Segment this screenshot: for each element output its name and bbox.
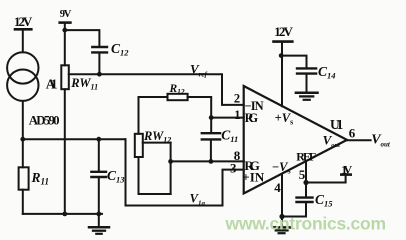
svg-text:9V: 9V: [60, 9, 72, 20]
12V supply terminal bar (right): [274, 40, 293, 43]
current source A1 circle upper: [7, 52, 38, 83]
svg-text:12V: 12V: [274, 24, 293, 39]
wire RW12 tap vertical: [170, 143, 172, 194]
svg-text:2: 2: [234, 92, 240, 106]
svg-text:6: 6: [349, 125, 356, 140]
ground symbol G3: [281, 217, 283, 227]
wire branch 12V to C14: [282, 56, 307, 68]
junction C13/ground: [96, 212, 101, 217]
wire pin4 stem: [281, 174, 283, 217]
svg-text:www.cntronics.com: www.cntronics.com: [225, 214, 387, 234]
svg-text:3: 3: [230, 161, 237, 176]
wire AD590 bottom stem: [22, 101, 24, 139]
wire RW11 bottom stem to ground row (crosses y139 no join): [64, 89, 66, 214]
junction R12/C11/pin1: [209, 115, 214, 120]
wire Vref row to pin2: [69, 74, 244, 105]
svg-text:REF: REF: [296, 150, 316, 164]
wire pin5 node to C15: [305, 183, 307, 197]
current source A1 circle lower: [7, 70, 38, 101]
wire Vla up to pin3: [223, 170, 244, 206]
capacitor C12 plates: [92, 46, 107, 48]
potentiometer RW12 body: [135, 134, 143, 157]
junction 9V/C12: [62, 28, 67, 33]
wire ground row bottom-left: [23, 213, 102, 215]
svg-text:5: 5: [299, 167, 306, 182]
wire C12 bottom stem: [98, 53, 100, 74]
svg-text:1V: 1V: [341, 162, 352, 176]
junction RW12 tap/pin8: [168, 159, 173, 164]
wire pin1 row: [211, 117, 244, 119]
wire C13 bottom stem: [98, 178, 100, 214]
capacitor C13 plates: [91, 171, 106, 173]
1V terminal bar: [341, 173, 350, 176]
12V supply terminal bar (left): [15, 28, 31, 31]
svg-text:A1: A1: [46, 77, 58, 92]
resistor R11 body: [19, 167, 29, 189]
wire R11 top stem: [22, 139, 24, 167]
wire R11 bottom stem: [22, 190, 24, 214]
wire RW12 bottom loop: [139, 157, 171, 194]
wire REF node to 1V terminal: [306, 176, 346, 183]
svg-text:RG: RG: [245, 111, 259, 125]
wire pin5 stem: [305, 161, 307, 182]
svg-text:1: 1: [234, 108, 240, 122]
wire 9V stem: [64, 23, 66, 66]
junction AD590/R11: [20, 137, 25, 142]
wire pin8 row: [171, 160, 244, 162]
wire output pin6: [347, 139, 371, 141]
junction pin5/C15/1V: [303, 180, 308, 185]
junction pin4/C15 ground: [279, 214, 284, 219]
wire Vla row: [126, 205, 223, 207]
wire y139 down to Vla row: [125, 139, 127, 205]
wire R12 right to pin1 column: [188, 97, 212, 132]
junction C13 top: [96, 137, 101, 142]
junction RW11/ground row: [62, 212, 67, 217]
wire C13 top stem: [98, 139, 100, 171]
wire C11 bottom stem: [210, 140, 212, 161]
wire RW12 wiper: [143, 142, 171, 144]
junction C11/pin8: [209, 159, 214, 164]
9V supply terminal bar: [60, 21, 71, 24]
junction 12V/C14: [279, 53, 284, 58]
ground symbol G2 under C14: [306, 74, 308, 92]
ground symbol G1: [98, 214, 100, 227]
wire R12 left: [139, 97, 168, 134]
capacitor C11 plates: [202, 132, 220, 134]
capacitor C15 plates: [297, 196, 313, 198]
svg-text:12V: 12V: [14, 14, 33, 29]
capacitor C14 plates: [297, 67, 316, 69]
junction C12/Vref: [97, 72, 102, 77]
op-amp U1 triangle: [244, 86, 347, 194]
svg-text:AD590: AD590: [29, 113, 60, 127]
potentiometer RW11 body: [61, 65, 69, 89]
svg-text:U1: U1: [330, 117, 344, 132]
wire C15 bottom to pin4 ground: [282, 203, 306, 217]
svg-text:+IN: +IN: [242, 170, 265, 185]
wire +Vs pin stem: [281, 42, 283, 107]
resistor R12 body: [168, 94, 188, 100]
svg-text:4: 4: [274, 180, 281, 195]
wire 12V stem: [22, 29, 24, 52]
wire branch 9V to C12: [65, 30, 100, 46]
wire node row y=139: [23, 138, 126, 140]
